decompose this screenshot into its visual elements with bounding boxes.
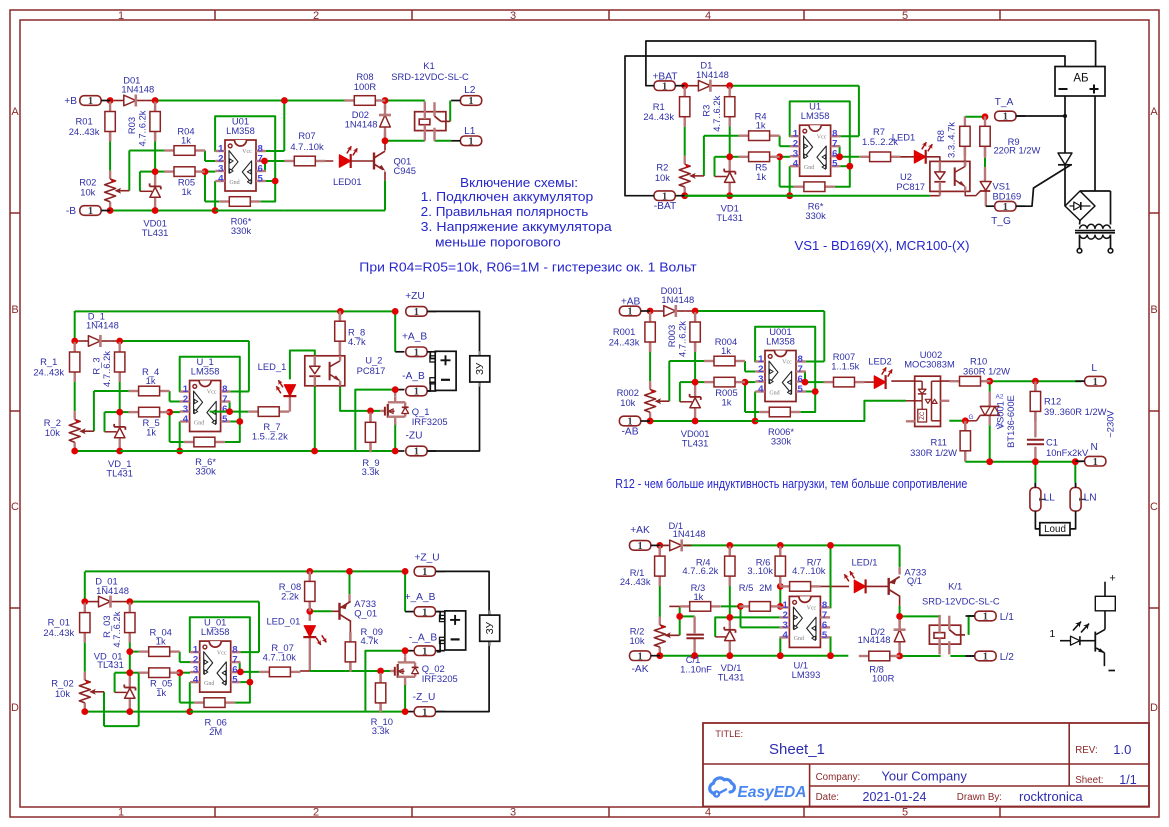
resistor R_9 — [362, 412, 380, 477]
junction dots C3 extras — [226, 308, 398, 454]
svg-text:1k: 1k — [693, 591, 703, 602]
resistor R_03 — [101, 603, 135, 648]
junction dots C1 — [107, 97, 279, 214]
diode D02 — [345, 105, 391, 137]
LED LED1 — [892, 131, 935, 164]
svg-text:MOC3083M: MOC3083M — [904, 359, 955, 370]
resistor R/8 — [859, 651, 900, 683]
wire net segments C4 — [650, 311, 824, 421]
potentiometer R002 — [617, 387, 670, 412]
svg-text:5: 5 — [822, 630, 828, 641]
svg-text:2M: 2M — [759, 582, 772, 593]
diode D01 — [114, 74, 154, 106]
svg-text:10k: 10k — [45, 427, 60, 438]
MOSFET Q_1 — [380, 397, 448, 427]
svg-text:1: 1 — [118, 10, 124, 22]
svg-text:LED/1: LED/1 — [851, 556, 877, 567]
note hysteresis — [359, 260, 696, 275]
TL431 VD/1 — [718, 627, 745, 683]
optocoupler U2 — [896, 161, 970, 192]
svg-text:1k: 1k — [756, 120, 766, 131]
svg-text:100R: 100R — [872, 673, 895, 684]
svg-text:4: 4 — [218, 174, 224, 185]
relay K/1 — [922, 580, 1000, 654]
svg-text:1N4148: 1N4148 — [345, 118, 378, 129]
wire thyristor net — [1016, 96, 1095, 206]
op-amp U/1 — [780, 596, 830, 679]
svg-text:-A_B: -A_B — [402, 371, 425, 382]
resistor R_10 — [371, 673, 393, 736]
resistor R1 — [643, 87, 690, 127]
svg-text:+_A_B: +_A_B — [405, 592, 436, 603]
junction dots C2 extras — [836, 113, 988, 160]
diode D_1 — [78, 310, 118, 347]
svg-text:1: 1 — [1093, 457, 1098, 468]
svg-text:Vcc: Vcc — [242, 149, 252, 155]
net flag +_A_B — [405, 592, 445, 618]
svg-text:4.7..6.2k: 4.7..6.2k — [711, 95, 722, 131]
svg-text:1N4148: 1N4148 — [696, 69, 729, 80]
net flag -B — [66, 206, 111, 218]
wire net segments C1 — [110, 101, 284, 211]
title block — [703, 723, 1149, 807]
TL431 VD_01 — [94, 651, 136, 699]
wire C2 extras — [685, 117, 995, 206]
optocoupler symbol (legend) — [1049, 573, 1115, 671]
svg-text:4: 4 — [758, 384, 764, 395]
svg-text:+: + — [1109, 573, 1115, 585]
resistor R9 — [980, 116, 1041, 156]
svg-text:Gnd: Gnd — [229, 180, 239, 186]
svg-text:4.7..6.2k: 4.7..6.2k — [101, 351, 112, 387]
svg-text:R8: R8 — [935, 130, 946, 142]
svg-text:5: 5 — [832, 159, 838, 170]
svg-text:360R 1/2W: 360R 1/2W — [963, 366, 1010, 377]
note VS1 types — [795, 238, 970, 253]
svg-text:4: 4 — [793, 159, 799, 170]
resistor R_4 — [129, 366, 170, 396]
net flag +A_B — [402, 332, 436, 359]
svg-text:A2: A2 — [996, 394, 1004, 401]
svg-text:A: A — [11, 106, 19, 118]
svg-text:24..43k: 24..43k — [43, 627, 74, 638]
svg-text:24..43k: 24..43k — [643, 111, 674, 122]
svg-text:1: 1 — [637, 541, 642, 552]
TL431 VD01 — [142, 183, 169, 238]
resistor R_5 — [129, 407, 170, 437]
svg-text:+AB: +AB — [621, 297, 641, 308]
svg-text:4.7..10k: 4.7..10k — [290, 141, 324, 152]
resistor R/6 — [747, 546, 785, 586]
resistor R_6* — [184, 437, 225, 476]
TL431 VD1 — [716, 169, 743, 224]
svg-text:5: 5 — [258, 174, 264, 185]
svg-text:L2: L2 — [464, 85, 476, 96]
svg-text:TL431: TL431 — [106, 468, 133, 479]
svg-text:LED_01: LED_01 — [266, 616, 300, 627]
speaker Loud — [1040, 523, 1070, 536]
net flag +AK — [630, 525, 661, 552]
svg-text:TL431: TL431 — [682, 438, 709, 449]
svg-text:+B: +B — [64, 96, 77, 107]
battery AB — [1055, 67, 1105, 97]
resistor R3 — [701, 87, 735, 132]
svg-text:1: 1 — [422, 707, 427, 718]
svg-text:330k: 330k — [805, 210, 826, 221]
resistor R_09 — [345, 626, 383, 672]
svg-text:SRD-12VDC-SL-C: SRD-12VDC-SL-C — [922, 596, 1000, 607]
resistor R10 — [950, 356, 1011, 386]
svg-text:1: 1 — [662, 81, 667, 92]
svg-text:1..1.5k: 1..1.5k — [831, 360, 859, 371]
potentiometer R2 — [655, 162, 704, 187]
svg-text:Vcc: Vcc — [782, 360, 792, 366]
optotriac U002 — [904, 349, 955, 427]
svg-text:1k: 1k — [181, 135, 191, 146]
junction dots C6 — [656, 542, 903, 659]
net flag L/2 — [966, 651, 1015, 663]
svg-text:1k: 1k — [721, 345, 731, 356]
svg-text:IRF3205: IRF3205 — [412, 416, 448, 427]
svg-text:1: 1 — [88, 96, 93, 107]
svg-text:1: 1 — [1093, 377, 1098, 388]
svg-text:3.3k: 3.3k — [372, 725, 390, 736]
net flag L/1 — [966, 611, 1015, 623]
svg-text:LED_1: LED_1 — [258, 361, 287, 372]
LED LED01 — [333, 145, 362, 187]
resistor R003 — [666, 312, 700, 357]
svg-text:1. Подключен аккумулятор: 1. Подключен аккумулятор — [421, 189, 594, 204]
svg-text:U_2: U_2 — [365, 354, 382, 365]
svg-text:rocktronica: rocktronica — [1019, 789, 1083, 804]
svg-text:PC817: PC817 — [896, 181, 925, 192]
svg-text:R12: R12 — [1044, 396, 1061, 407]
svg-text:+AK: +AK — [630, 525, 650, 536]
svg-text:+Z_U: +Z_U — [414, 552, 439, 563]
svg-text:1N4148: 1N4148 — [96, 585, 129, 596]
svg-text:L/2: L/2 — [1000, 652, 1014, 663]
resistor R6* — [794, 182, 835, 221]
svg-text:~230V: ~230V — [1105, 410, 1116, 438]
net flag L1 — [451, 126, 482, 148]
capacitor C/1 — [680, 635, 712, 675]
svg-text:Date:: Date: — [816, 792, 839, 803]
junction dots C2 — [681, 82, 853, 199]
svg-text:1N4148: 1N4148 — [858, 634, 891, 645]
svg-text:24..43k: 24..43k — [620, 576, 651, 587]
resistor R/4 — [682, 546, 735, 586]
svg-text:-B: -B — [66, 206, 76, 217]
op-amp U1 — [790, 101, 840, 177]
wire C5 extras — [85, 571, 489, 711]
op-amp U_01 — [190, 617, 240, 693]
op-amp U001 — [755, 326, 805, 402]
op-amp U01 — [215, 116, 265, 192]
charger box ZU C5 — [480, 611, 500, 646]
MOSFET Q_02 — [390, 657, 458, 685]
svg-text:Gnd: Gnd — [794, 636, 804, 642]
svg-text:1.0: 1.0 — [1113, 742, 1131, 757]
resistor R_08 — [279, 571, 315, 611]
resistor R_06 — [194, 698, 235, 737]
svg-text:BD169: BD169 — [993, 190, 1022, 201]
net flag +BAT — [652, 71, 684, 92]
svg-text:4: 4 — [705, 807, 711, 819]
svg-text:VS1 - BD169(X), MCR100-(X): VS1 - BD169(X), MCR100-(X) — [795, 238, 970, 253]
svg-text:N: N — [1091, 442, 1098, 453]
TL431 VD001 — [681, 394, 710, 449]
svg-text:5: 5 — [222, 414, 228, 425]
resistor R12 — [1030, 381, 1106, 421]
svg-text:2M: 2M — [209, 726, 222, 737]
svg-text:1..10nF: 1..10nF — [680, 664, 712, 675]
bridge rectifier — [1065, 191, 1095, 221]
svg-text:Your Company: Your Company — [881, 769, 967, 784]
diode D/1 — [660, 520, 706, 552]
resistor R_8 — [335, 311, 366, 351]
svg-text:REV:: REV: — [1075, 745, 1098, 756]
svg-text:1k: 1k — [146, 427, 156, 438]
svg-text:B: B — [11, 304, 18, 316]
svg-text:Gnd: Gnd — [204, 681, 214, 687]
svg-text:1N4148: 1N4148 — [86, 320, 119, 331]
svg-text:1/1: 1/1 — [1119, 773, 1136, 787]
svg-text:-_A_B: -_A_B — [409, 632, 438, 643]
svg-text:1: 1 — [422, 646, 427, 657]
net flag -A_B — [402, 371, 436, 398]
svg-text:1: 1 — [414, 447, 419, 458]
resistor R07 — [284, 130, 325, 166]
svg-text:330k: 330k — [771, 436, 792, 447]
junction dots C5 extras — [237, 568, 409, 715]
resistor R03 — [126, 102, 160, 147]
svg-text:LED2: LED2 — [868, 356, 891, 367]
potentiometer R/2 — [629, 625, 679, 647]
junction dots C1 extras — [261, 97, 388, 164]
svg-text:1: 1 — [1003, 202, 1008, 213]
svg-text:1: 1 — [468, 96, 473, 107]
label 230V — [1105, 410, 1116, 438]
svg-text:R12 - чем больше индуктивность: R12 - чем больше индуктивность нагрузки,… — [615, 476, 967, 491]
junction dots C3 — [71, 338, 243, 455]
resistor R7 — [860, 126, 901, 162]
svg-text:1: 1 — [1049, 628, 1055, 640]
svg-text:LM358: LM358 — [801, 110, 830, 121]
LED LED_01 — [266, 616, 328, 647]
svg-text:10k: 10k — [80, 187, 95, 198]
svg-text:4: 4 — [783, 630, 789, 641]
wire loud — [1035, 511, 1075, 529]
svg-text:1k: 1k — [146, 375, 156, 386]
svg-text:24..43k: 24..43k — [609, 336, 640, 347]
junction dots C5 — [81, 598, 253, 715]
svg-text:1: 1 — [983, 612, 988, 623]
svg-text:3. Напряжение аккумулятора: 3. Напряжение аккумулятора — [421, 219, 613, 234]
relay K1 — [391, 60, 469, 141]
svg-text:LN: LN — [1084, 492, 1097, 503]
svg-text:1k: 1k — [756, 171, 766, 182]
svg-text:ЗУ: ЗУ — [475, 362, 486, 375]
diode D/2 — [858, 620, 906, 652]
net flag LL — [1030, 483, 1055, 511]
svg-text:A: A — [1150, 106, 1158, 118]
net flag +ZU — [405, 291, 436, 318]
net flag LN — [1070, 483, 1097, 511]
resistor R4 — [739, 111, 780, 141]
transistor Q/1 A733 — [889, 567, 927, 597]
resistor R05 — [164, 167, 205, 197]
svg-text:4.7..6.2k: 4.7..6.2k — [676, 321, 687, 357]
wire net segments C5 — [85, 572, 259, 727]
svg-text:1k: 1k — [156, 687, 166, 698]
resistor R8 — [935, 116, 970, 158]
svg-text:4.7..6.2k: 4.7..6.2k — [682, 565, 718, 576]
svg-text:10k: 10k — [629, 635, 644, 646]
triac VS001 — [968, 394, 1016, 448]
note R12 — [615, 476, 967, 491]
svg-text:4.7..6.2k: 4.7..6.2k — [111, 611, 122, 647]
svg-text:3.3..4.7k: 3.3..4.7k — [946, 122, 957, 158]
svg-text:1k: 1k — [182, 186, 192, 197]
svg-text:L: L — [1091, 363, 1097, 374]
svg-text:L/1: L/1 — [1000, 612, 1014, 623]
net flag -Z_U — [413, 692, 445, 718]
net flag N — [1075, 442, 1106, 468]
junction dots C4 — [647, 308, 819, 425]
note switch-on conditions — [421, 175, 613, 250]
net flag -_A_B — [409, 632, 445, 657]
wire C6 net — [660, 545, 975, 656]
svg-text:LL: LL — [1044, 492, 1056, 503]
resistor R04 — [164, 126, 205, 156]
svg-text:VS001: VS001 — [995, 401, 1006, 429]
thyristor VS1 — [980, 181, 1021, 202]
svg-text:4.7k: 4.7k — [348, 336, 366, 347]
svg-text:5: 5 — [798, 384, 804, 395]
svg-text:1: 1 — [1003, 112, 1008, 123]
svg-text:Company:: Company: — [816, 772, 861, 783]
svg-text:1N4148: 1N4148 — [121, 84, 154, 95]
junction dots C4 extras — [802, 378, 1079, 465]
svg-text:Vcc: Vcc — [807, 606, 817, 612]
svg-text:10nFx2kV: 10nFx2kV — [1046, 447, 1089, 458]
svg-text:R11: R11 — [930, 436, 947, 447]
svg-text:BT136-600E: BT136-600E — [1005, 395, 1016, 448]
resistor R001 — [609, 312, 656, 352]
svg-text:10k: 10k — [55, 688, 70, 699]
svg-text:ZC: ZC — [920, 411, 926, 420]
svg-text:1: 1 — [422, 607, 427, 618]
svg-text:100R: 100R — [354, 81, 377, 92]
svg-text:+ZU: +ZU — [405, 291, 425, 302]
svg-text:1: 1 — [627, 307, 632, 318]
LED LED_1 — [258, 361, 297, 396]
svg-text:1N4148: 1N4148 — [673, 528, 706, 539]
svg-text:4: 4 — [183, 414, 189, 425]
svg-text:1: 1 — [468, 137, 473, 148]
net flag -BAT — [654, 191, 685, 212]
svg-text:Sheet:: Sheet: — [1075, 775, 1103, 786]
svg-text:При R04=R05=10k, R06=1M - гист: При R04=R05=10k, R06=1M - гистерезис ок.… — [359, 260, 696, 275]
svg-text:D: D — [11, 702, 19, 714]
transistor Q01 — [374, 151, 416, 176]
svg-text:LM358: LM358 — [766, 336, 795, 347]
wire C3 extras — [75, 311, 480, 451]
svg-text:2.2k: 2.2k — [281, 591, 299, 602]
svg-text:330k: 330k — [231, 225, 252, 236]
svg-text:LM393: LM393 — [792, 669, 821, 680]
op-amp U_1 — [180, 356, 230, 432]
svg-text:39..360R 1/2W: 39..360R 1/2W — [1044, 406, 1107, 417]
svg-text:K1: K1 — [423, 60, 434, 71]
resistor R_7 — [248, 407, 289, 442]
battery accumulator C5 — [440, 611, 466, 650]
svg-text:-BAT: -BAT — [654, 201, 676, 212]
svg-text:Vcc: Vcc — [217, 650, 227, 656]
svg-text:1: 1 — [88, 206, 93, 217]
resistor R_1 — [33, 342, 80, 382]
svg-text:10k: 10k — [620, 397, 635, 408]
wire C1 extras — [215, 101, 451, 211]
resistor R_07 — [259, 642, 300, 676]
potentiometer R_2 — [44, 417, 94, 442]
svg-text:B: B — [1150, 304, 1157, 316]
svg-text:4.7..6.2k: 4.7..6.2k — [136, 110, 147, 146]
svg-text:C945: C945 — [394, 165, 416, 176]
svg-text:5: 5 — [902, 10, 908, 22]
svg-text:Gnd: Gnd — [769, 390, 779, 396]
svg-text:3..10k: 3..10k — [747, 565, 773, 576]
svg-text:1k: 1k — [722, 397, 732, 408]
net flag T_G — [991, 201, 1025, 227]
svg-text:C: C — [11, 501, 19, 513]
svg-text:10k: 10k — [655, 172, 670, 183]
svg-text:4.7k: 4.7k — [361, 635, 379, 646]
svg-text:330R 1/2W: 330R 1/2W — [910, 447, 957, 458]
svg-text:1N4148: 1N4148 — [661, 294, 694, 305]
svg-text:1k: 1k — [156, 636, 166, 647]
svg-text:Q/1: Q/1 — [907, 575, 922, 586]
svg-text:2. Правильная полярность: 2. Правильная полярность — [421, 204, 589, 219]
resistor R/5 — [739, 582, 781, 611]
svg-text:R/5: R/5 — [739, 582, 754, 593]
LED LED/1 — [842, 556, 877, 593]
svg-text:1: 1 — [118, 807, 124, 819]
svg-text:220R 1/2W: 220R 1/2W — [993, 144, 1040, 155]
svg-text:LM358: LM358 — [201, 626, 230, 637]
potentiometer R_02 — [51, 678, 104, 703]
svg-text:-Z_U: -Z_U — [413, 692, 436, 703]
svg-text:АБ: АБ — [1073, 72, 1088, 84]
svg-text:IRF3205: IRF3205 — [422, 673, 458, 684]
svg-text:3: 3 — [510, 10, 516, 22]
net flag -ZU — [406, 431, 437, 458]
potentiometer R02 — [79, 177, 129, 202]
svg-text:4: 4 — [193, 675, 199, 686]
svg-text:Sheet_1: Sheet_1 — [769, 741, 825, 758]
svg-text:TL431: TL431 — [142, 227, 169, 238]
svg-text:PC817: PC817 — [357, 365, 386, 376]
net flag +B — [64, 96, 110, 108]
svg-text:1: 1 — [983, 652, 988, 663]
capacitor C1 — [1027, 436, 1089, 457]
svg-text:LM358: LM358 — [226, 125, 255, 136]
resistor R01 — [69, 102, 116, 142]
svg-text:G: G — [968, 414, 973, 421]
svg-text:Vcc: Vcc — [207, 390, 217, 396]
LED LED2 — [868, 356, 894, 390]
svg-text:Gnd: Gnd — [194, 420, 204, 426]
